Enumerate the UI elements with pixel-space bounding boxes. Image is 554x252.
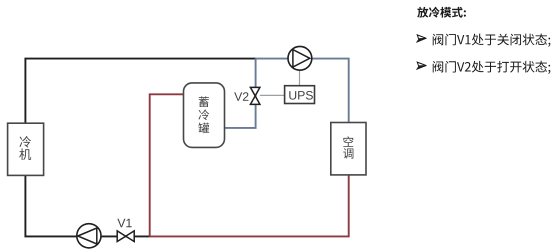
wire: red pipe bottom run from junction B right and up into air-conditioner bottom bbox=[150, 175, 349, 237]
wire: gray control line from valve V2 to UPS left side bbox=[260, 94, 285, 96]
bullet arrow 2 bbox=[417, 62, 427, 69]
bullet arrow 1 bbox=[417, 35, 427, 42]
wire: black pipe from chiller top up and across to node A bbox=[25, 59, 255, 124]
valve V1 (horizontal bowtie) bbox=[117, 231, 134, 242]
valve V2 (vertical bowtie) bbox=[250, 87, 260, 104]
label V1 bbox=[117, 219, 131, 227]
pump P2 (bottom): circle with left-pointing triangle bbox=[77, 224, 101, 248]
UPS box bbox=[285, 86, 315, 104]
pump P1 (top): circle with right-pointing triangle bbox=[288, 46, 312, 70]
annotation title 放冷模式: bbox=[417, 7, 466, 18]
wire: black pipe from chiller bottom down and right through pump P2 and valve V1 to junction B bbox=[25, 175, 149, 236]
chiller box 冷机 bbox=[8, 123, 44, 175]
wire: blue pipe from node A down through valve V2 to tank right port bbox=[225, 59, 256, 128]
label V2 bbox=[234, 92, 248, 101]
wire: gray control line from pump P1 bottom to UPS top bbox=[299, 70, 301, 86]
air conditioner box 空调 bbox=[331, 123, 366, 175]
bullet text 1: 阀门V1处于关闭状态; bbox=[433, 34, 551, 47]
bullet text 2: 阀门V2处于打开状态; bbox=[433, 61, 551, 74]
wire: blue pipe from node A right through pump P1 then down into air-conditioner top bbox=[256, 59, 349, 123]
wire: red pipe from tank left port down to junction B bbox=[150, 94, 184, 236]
storage tank 蓄冷罐 (rounded) bbox=[184, 83, 225, 147]
